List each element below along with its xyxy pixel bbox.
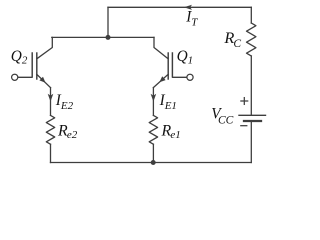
wire: bottom rail [51,162,252,164]
wire: Re2 to bottom rail [50,144,52,162]
wire: left drop from top rail to collector node [107,7,109,37]
svg-text:Re2: Re2 [57,123,78,142]
wire: Q2 emitter vertical [50,88,52,116]
wire: battery to bottom rail [250,121,252,163]
svg-text:Re1: Re1 [161,123,181,142]
resistor Re1 [149,115,157,144]
current arrow I_E2 (pointing down) [48,94,54,102]
wire: Re1 to bottom rail [152,144,154,162]
node: collector node junction dot [106,35,111,40]
transistor Q1 [153,53,187,88]
current arrow I_T (pointing left on top rail) [184,5,192,10]
svg-text:Q1: Q1 [177,48,194,67]
battery VCC [239,98,266,126]
svg-text:VCC: VCC [211,106,233,127]
resistor RC [247,23,256,56]
wire: Q1 emitter vertical [152,88,154,116]
svg-text:RC: RC [223,28,241,50]
wire: Q1 collector lead [154,37,168,58]
wire: Q2 collector lead [37,37,53,58]
node: bottom rail junction dot [151,160,156,165]
svg-text:Q2: Q2 [11,48,28,67]
wire: top rail [108,6,251,8]
svg-text:IT: IT [185,9,198,29]
terminal: Q2 base open circle [12,74,18,80]
svg-text:IE2: IE2 [55,92,74,112]
terminal: Q1 base open circle [187,74,193,80]
transistor Q2 [18,53,51,88]
svg-text:IE1: IE1 [159,92,177,112]
wire: RC to battery [250,56,252,115]
wire: collector node rail [52,36,154,38]
wire: RC top lead [250,7,252,23]
current arrow I_E1 (pointing down) [151,94,157,102]
resistor Re2 [46,115,54,144]
